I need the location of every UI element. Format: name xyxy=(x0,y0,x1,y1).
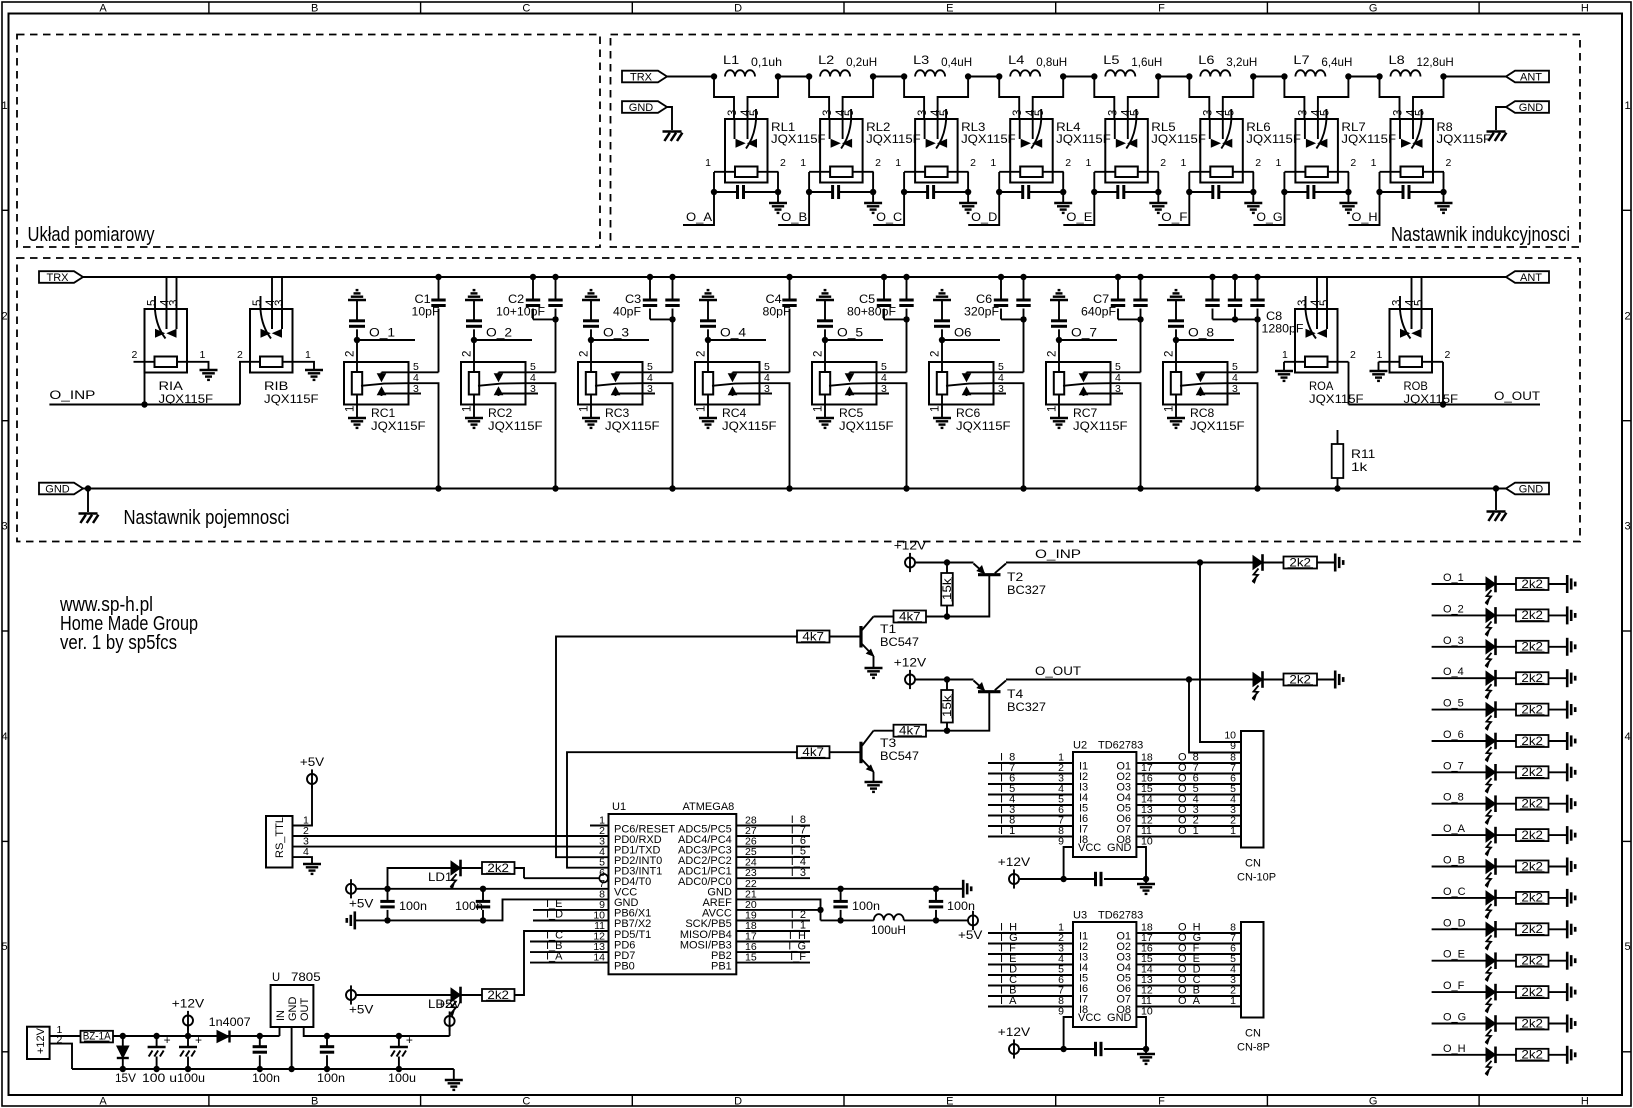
wire 2k2 to chassis (O_7) xyxy=(1549,771,1567,773)
svg-text:U1: U1 xyxy=(612,801,626,813)
svg-text:RC3: RC3 xyxy=(605,406,630,420)
net I_A to U3 I8 xyxy=(988,1006,1073,1008)
svg-text:1k: 1k xyxy=(1351,460,1368,474)
chassis ground (O_G) xyxy=(1566,1015,1569,1033)
wire R11 to GND rail xyxy=(1337,478,1339,489)
relay RL5 JQX115F xyxy=(1105,119,1148,183)
svg-text:F: F xyxy=(1158,1096,1165,1108)
svg-text:1: 1 xyxy=(579,406,591,412)
svg-text:3: 3 xyxy=(917,110,929,116)
capacitor C8 1280pF xyxy=(1209,274,1215,280)
inductor 100uH xyxy=(874,914,904,920)
IC U1 ATMEGA8 box xyxy=(609,814,737,974)
wire RL1 pin2 down xyxy=(777,172,779,192)
resistor 2k2 (O_G) xyxy=(1516,1018,1549,1030)
supply +5V (LD2) xyxy=(346,990,356,1000)
wire U2 GND pin10 to ground xyxy=(1136,847,1146,884)
resistor 2k2 (O_4) xyxy=(1516,672,1549,684)
frame column ticks top/bottom xyxy=(208,2,210,14)
capacitor 100n (PSU 2) xyxy=(326,1036,328,1047)
svg-text:1,6uH: 1,6uH xyxy=(1131,55,1162,69)
chassis ground (U1 GND left) xyxy=(353,911,356,929)
svg-text:OUT: OUT xyxy=(299,998,311,1022)
svg-text:2: 2 xyxy=(1160,157,1166,169)
svg-text:I_F: I_F xyxy=(790,951,806,963)
PSU bottom rail xyxy=(72,1068,454,1070)
svg-text:1: 1 xyxy=(1,100,7,112)
capacitor C4 80pF xyxy=(786,274,792,280)
wire T3 collector xyxy=(874,730,894,732)
wire ROB pin2 down to O_OUT xyxy=(1442,362,1444,405)
net I_5 from U1 xyxy=(736,856,810,858)
U1 pin1 stub xyxy=(590,825,609,827)
svg-text:+5V: +5V xyxy=(349,1003,373,1017)
svg-text:100n: 100n xyxy=(252,1071,280,1085)
svg-text:C: C xyxy=(522,1096,530,1108)
wire RL4 pin2 down xyxy=(1062,172,1064,192)
capacitor 100n (U2) xyxy=(1094,872,1097,886)
svg-text:1: 1 xyxy=(895,157,901,169)
svg-text:80+80pF: 80+80pF xyxy=(847,305,896,319)
svg-text:2: 2 xyxy=(696,351,708,357)
svg-text:3: 3 xyxy=(998,383,1004,395)
wire RL7 pin1 down xyxy=(1283,172,1285,192)
svg-text:D: D xyxy=(734,3,742,15)
svg-text:RC8: RC8 xyxy=(1190,406,1215,420)
svg-text:O_C: O_C xyxy=(1443,886,1466,898)
ground T3 emitter xyxy=(865,781,883,783)
ground above RC4 xyxy=(699,299,717,301)
wire O6 junction to relay pin2 xyxy=(941,340,943,372)
wire L1 left lead to relay contact xyxy=(714,77,734,120)
net label O_1 xyxy=(354,337,360,343)
net O_5 LED row xyxy=(1432,709,1486,711)
svg-text:CN: CN xyxy=(1245,1028,1261,1040)
LED (O_F) xyxy=(1486,985,1496,999)
capacitor to ground RC2 cell xyxy=(473,300,475,321)
svg-text:O_A: O_A xyxy=(1178,995,1201,1007)
wire 2k2 to chassis (O_E) xyxy=(1549,960,1567,962)
svg-text:1: 1 xyxy=(1085,157,1091,169)
ground above RC3 xyxy=(582,299,600,301)
svg-text:RC2: RC2 xyxy=(488,406,513,420)
svg-text:5: 5 xyxy=(749,110,761,116)
svg-text:5: 5 xyxy=(1129,110,1141,116)
connector CN-10P xyxy=(1241,731,1264,848)
resistor 2k2 (LD2) xyxy=(482,989,515,1001)
svg-text:R11: R11 xyxy=(1351,447,1376,461)
svg-text:Układ pomiarowy: Układ pomiarowy xyxy=(28,224,155,246)
LED LD2 xyxy=(451,988,461,1002)
net I_7 from U1 xyxy=(736,835,810,837)
wire T3 emitter to ground xyxy=(873,772,875,782)
svg-text:L6: L6 xyxy=(1198,53,1215,67)
svg-text:3: 3 xyxy=(530,383,536,395)
svg-text:O_2: O_2 xyxy=(1443,603,1464,615)
frame row ticks left/right xyxy=(2,209,9,211)
ground U3 xyxy=(1137,1053,1155,1055)
wire LED to 2k2 (O_7) xyxy=(1496,771,1517,773)
svg-text:T4: T4 xyxy=(1007,687,1024,701)
wire RL3 pin1 down xyxy=(903,172,905,192)
svg-text:0,4uH: 0,4uH xyxy=(941,55,972,69)
svg-text:O_OUT: O_OUT xyxy=(1494,389,1541,403)
RC3 pin 4 lever wire xyxy=(595,383,643,386)
svg-text:1: 1 xyxy=(800,157,806,169)
resistor 2k2 (O_7) xyxy=(1516,766,1549,778)
capacitor 100n (PSU 1) xyxy=(259,1036,261,1047)
net I_6 to U2 I3 xyxy=(988,783,1073,785)
svg-text:+12V: +12V xyxy=(35,1027,47,1054)
wire LED to 2k2 (O_INP) xyxy=(1263,562,1284,564)
LED LD2 circuit wire xyxy=(356,994,451,996)
svg-text:1: 1 xyxy=(1377,349,1383,361)
chassis ground (O_C) xyxy=(1566,889,1569,907)
chassis ground (O_H) xyxy=(1566,1046,1569,1064)
resistor 2k2 (O_8) xyxy=(1516,798,1549,810)
wire 2k2 to chassis (O_C) xyxy=(1549,897,1567,899)
wire L5 right lead to relay contact xyxy=(1128,77,1159,120)
capacitor 100u (1) xyxy=(156,1036,158,1047)
chassis ground (O_7) xyxy=(1566,763,1569,781)
svg-text:5: 5 xyxy=(1415,110,1427,116)
svg-text:LD1: LD1 xyxy=(428,870,453,884)
svg-text:A: A xyxy=(99,3,107,15)
svg-text:2: 2 xyxy=(1624,310,1630,322)
net label O_7 xyxy=(1056,337,1062,343)
net O_G from U3 O2 xyxy=(1136,943,1241,945)
svg-text:5: 5 xyxy=(939,110,951,116)
wire O_3 junction to relay pin2 xyxy=(590,340,592,372)
wire L6 left lead to relay contact xyxy=(1189,77,1209,120)
chassis ground (O_D) xyxy=(1566,920,1569,938)
svg-text:O_H: O_H xyxy=(1443,1043,1466,1055)
svg-text:1n4007: 1n4007 xyxy=(209,1015,251,1029)
net I_F to U3 I3 xyxy=(988,953,1073,955)
svg-text:O_2: O_2 xyxy=(486,326,512,340)
svg-text:BC547: BC547 xyxy=(880,635,919,649)
RC4 pin 3 stub xyxy=(733,393,773,395)
LED (O_H) xyxy=(1486,1048,1496,1062)
wire RC7 pin1 to ground xyxy=(1058,395,1060,419)
resistor 2k2 (O_H) xyxy=(1516,1049,1549,1061)
supply +12V (U3) xyxy=(1009,1044,1019,1054)
net O_E LED row xyxy=(1432,960,1486,962)
svg-text:U: U xyxy=(272,970,280,984)
wire TRX segment after L6 xyxy=(1253,76,1284,78)
svg-text:A: A xyxy=(99,1096,107,1108)
svg-text:2: 2 xyxy=(1047,351,1059,357)
wire GND rail (capacitor section) xyxy=(83,488,1506,490)
capacitor C5 80+80pF xyxy=(881,274,887,280)
wire 7805 GND xyxy=(291,1027,293,1069)
chassis ground (O_F) xyxy=(1566,983,1569,1001)
svg-text:H: H xyxy=(1581,1096,1589,1108)
relay RC3 JQX115F (rotated) xyxy=(578,362,643,405)
svg-text:40pF: 40pF xyxy=(613,305,641,319)
svg-text:ver. 1 by sp5fcs: ver. 1 by sp5fcs xyxy=(60,632,177,654)
svg-text:O_1: O_1 xyxy=(369,326,395,340)
ground RS_TTL xyxy=(303,863,321,865)
net I_A to U1 pin14 xyxy=(530,962,609,964)
svg-text:+5V: +5V xyxy=(437,997,461,1011)
svg-text:O_G: O_G xyxy=(1443,1012,1466,1024)
svg-text:2: 2 xyxy=(1065,157,1071,169)
svg-text:3: 3 xyxy=(764,383,770,395)
LED (O_8) xyxy=(1486,797,1496,811)
relay RL7 JQX115F xyxy=(1295,119,1338,183)
svg-text:TD62783: TD62783 xyxy=(1098,910,1143,922)
svg-text:CN: CN xyxy=(1245,858,1261,870)
net O_5 from U2 O4 xyxy=(1136,794,1241,796)
capacitor to ground RC1 cell xyxy=(356,300,358,321)
wire O_4 junction to relay pin2 xyxy=(707,340,709,372)
U1 pin6 PD4 wire with circle from LD1 xyxy=(524,877,599,879)
resistor 2k2 (O_E) xyxy=(1516,955,1549,967)
wire 2k2 to chassis (O_OUT) xyxy=(1317,679,1334,681)
svg-text:2: 2 xyxy=(1445,349,1451,361)
net I_H from U1 xyxy=(736,941,810,943)
svg-text:5: 5 xyxy=(1319,110,1331,116)
svg-text:Nastawnik pojemnosci: Nastawnik pojemnosci xyxy=(124,507,290,529)
chassis ground (O_6) xyxy=(1566,732,1569,750)
svg-text:+12V: +12V xyxy=(894,539,926,553)
relay R8 JQX115F xyxy=(1391,119,1434,183)
net O_OUT (capacitor section) xyxy=(1349,404,1541,406)
wire LED to 2k2 (O_8) xyxy=(1496,803,1517,805)
svg-text:L3: L3 xyxy=(913,53,930,67)
resistor 2k2 (LD1) xyxy=(482,862,515,874)
relay RL2 JQX115F xyxy=(820,119,863,183)
net I_G to U3 I2 xyxy=(988,943,1073,945)
svg-text:BC327: BC327 xyxy=(1007,583,1046,597)
net I_7 to U2 I2 xyxy=(988,773,1073,775)
RC8 pin 4 lever wire xyxy=(1180,383,1228,386)
capacitor C2 10+10pF xyxy=(530,274,536,280)
wire RL4 pin1 down xyxy=(998,172,1000,192)
LED (O_G) xyxy=(1486,1017,1496,1031)
svg-text:I_D: I_D xyxy=(546,909,563,921)
wire 2k2 to chassis (O_1) xyxy=(1549,583,1567,585)
chassis ground (O_OUT) xyxy=(1334,671,1337,689)
wire LED to 2k2 (O_E) xyxy=(1496,960,1517,962)
svg-text:3: 3 xyxy=(413,383,419,395)
svg-text:O_OUT: O_OUT xyxy=(1035,664,1082,678)
svg-text:3: 3 xyxy=(1232,383,1238,395)
dashed box Uklad pomiarowy xyxy=(17,35,600,248)
resistor 2k2 (O_1) xyxy=(1516,578,1549,590)
capacitor C3 40pF xyxy=(647,274,653,280)
svg-text:5: 5 xyxy=(844,110,856,116)
svg-text:TRX: TRX xyxy=(47,272,70,284)
wire +12V to U2 xyxy=(1019,878,1096,880)
net O_D from U3 O5 xyxy=(1136,974,1241,976)
svg-text:TRX: TRX xyxy=(630,72,653,84)
wire TRX segment after L3 xyxy=(968,76,999,78)
svg-text:JQX115F: JQX115F xyxy=(1151,132,1206,146)
LED (O_E) xyxy=(1486,954,1496,968)
wire ROA pin1 to ground xyxy=(1283,362,1285,371)
net stub O_H (inductor section) xyxy=(1349,192,1380,225)
relay RC8 JQX115F (rotated) xyxy=(1163,362,1228,405)
svg-text:5: 5 xyxy=(1624,941,1630,953)
ground under RL6 xyxy=(1252,192,1254,203)
resistor 2k2 (O_3) xyxy=(1516,641,1549,653)
net O_H from U3 O1 xyxy=(1136,932,1241,934)
net O_B LED row xyxy=(1432,866,1486,868)
inductor L1 0,1uh xyxy=(725,70,755,76)
wire RC5 pin1 to ground xyxy=(824,395,826,419)
chassis ground (O_A) xyxy=(1566,826,1569,844)
net O_4 LED row xyxy=(1432,677,1486,679)
LED (O_1) xyxy=(1486,577,1496,591)
svg-text:O_INP: O_INP xyxy=(49,388,95,402)
svg-text:2: 2 xyxy=(1,310,7,322)
svg-text:O_C: O_C xyxy=(876,210,902,224)
connector CN-8P xyxy=(1241,922,1264,1018)
net I_8 to U2 I1 xyxy=(988,762,1073,764)
net I_B to U1 pin13 xyxy=(530,951,609,953)
svg-text:JQX115F: JQX115F xyxy=(371,419,426,433)
relay ROB JQX115F xyxy=(1390,309,1433,373)
wire RL5 pin2 down xyxy=(1157,172,1159,192)
svg-text:PB1: PB1 xyxy=(711,960,732,972)
svg-text:O_A: O_A xyxy=(686,210,712,224)
svg-text:100uH: 100uH xyxy=(871,923,906,937)
svg-text:3: 3 xyxy=(1107,110,1119,116)
svg-text:+5V: +5V xyxy=(300,755,324,769)
wire L2 right lead to relay contact xyxy=(843,77,874,120)
wire RIB pin1 to ground xyxy=(304,362,315,370)
svg-text:100n: 100n xyxy=(317,1071,345,1085)
svg-text:PB0: PB0 xyxy=(614,960,635,972)
inductor L3 0,4uH xyxy=(915,70,945,76)
svg-text:RC1: RC1 xyxy=(371,406,396,420)
svg-text:+12V: +12V xyxy=(998,1025,1030,1039)
inductor L7 6,4uH xyxy=(1295,70,1325,76)
wire O_7 junction to relay pin2 xyxy=(1058,340,1060,372)
svg-text:F: F xyxy=(1158,3,1165,15)
wire LED to 2k2 (O_B) xyxy=(1496,866,1517,868)
junction dots at L6 xyxy=(1186,73,1192,79)
wire RC6 pin1 to ground xyxy=(941,395,943,419)
svg-text:2: 2 xyxy=(462,351,474,357)
capacitor across coil RL3 xyxy=(904,191,928,193)
resistor 2k2 (O_2) xyxy=(1516,609,1549,621)
chassis ground (O_INP) xyxy=(1334,554,1337,572)
svg-text:O_8: O_8 xyxy=(1188,326,1214,340)
svg-text:B: B xyxy=(311,1096,318,1108)
svg-text:1: 1 xyxy=(1624,100,1630,112)
svg-text:100n: 100n xyxy=(399,899,427,913)
svg-text:JQX115F: JQX115F xyxy=(722,419,777,433)
inductor L2 0,2uH xyxy=(820,70,850,76)
svg-text:O6: O6 xyxy=(954,326,972,340)
resistor 2k2 (O_F) xyxy=(1516,986,1549,998)
svg-text:5: 5 xyxy=(1319,300,1331,306)
svg-text:1: 1 xyxy=(1282,349,1288,361)
ground above RC1 xyxy=(348,299,366,301)
svg-text:O_B: O_B xyxy=(1443,855,1465,867)
svg-text:O_F: O_F xyxy=(1161,210,1187,224)
relay RL6 JQX115F xyxy=(1200,119,1243,183)
LED (O_A) xyxy=(1486,828,1496,842)
wire 2k2 to chassis (O_G) xyxy=(1549,1023,1567,1025)
svg-text:RIB: RIB xyxy=(264,379,288,393)
wire 2k2 to chassis (O_F) xyxy=(1549,991,1567,993)
wire 7805 OUT rail xyxy=(304,1027,450,1036)
wire R8 pin1 down xyxy=(1379,172,1381,192)
LED on O_OUT xyxy=(1253,673,1263,687)
relay RC5 JQX115F (rotated) xyxy=(812,362,877,405)
capacitor 100u (3) xyxy=(398,1036,400,1047)
wire LED to 2k2 (O_2) xyxy=(1496,614,1517,616)
wire ROA pin2 down to O_OUT xyxy=(1348,362,1350,405)
svg-text:+5V: +5V xyxy=(349,896,373,910)
resistor 2k2 (O_A) xyxy=(1516,829,1549,841)
net O_H LED row xyxy=(1432,1054,1486,1056)
wire L4 right lead to relay contact xyxy=(1033,77,1064,120)
svg-text:TD62783: TD62783 xyxy=(1098,740,1143,752)
supply +12V (U2) xyxy=(1009,874,1019,884)
svg-text:+: + xyxy=(406,1033,413,1047)
svg-text:3: 3 xyxy=(1393,110,1405,116)
wire L4 left lead to relay contact xyxy=(999,77,1019,120)
net label O_2 xyxy=(471,337,477,343)
svg-text:1: 1 xyxy=(345,406,357,412)
net O_6 from U2 O3 xyxy=(1136,783,1241,785)
junction dots at L3 xyxy=(901,73,907,79)
capacitor across coil R8 xyxy=(1380,191,1404,193)
svg-text:3: 3 xyxy=(881,383,887,395)
relay RC1 JQX115F (rotated) xyxy=(344,362,409,405)
wire RIA pin1 to ground xyxy=(198,362,209,370)
ground above RC6 xyxy=(933,299,951,301)
svg-text:O_4: O_4 xyxy=(720,326,746,340)
svg-text:640pF: 640pF xyxy=(1081,305,1116,319)
svg-text:JQX115F: JQX115F xyxy=(866,132,921,146)
net O_3 LED row xyxy=(1432,646,1486,648)
ground under RL3 xyxy=(967,192,969,203)
wire RL5 pin1 down xyxy=(1093,172,1095,192)
RC8 pin 5 wire xyxy=(1201,371,1258,373)
wire RC3 pin1 to ground xyxy=(590,395,592,419)
LED LD1 xyxy=(451,861,461,875)
wire TRX rail (capacitor section) xyxy=(83,276,1506,278)
wire O_5 junction to relay pin2 xyxy=(824,340,826,372)
wire TRX segment after L7 xyxy=(1348,76,1379,78)
LED on O_INP xyxy=(1253,556,1263,570)
svg-text:JQX115F: JQX115F xyxy=(771,132,826,146)
flag ANT (inductor section) xyxy=(1506,71,1549,83)
wire TRX segment after L4 xyxy=(1063,76,1094,78)
svg-text:1: 1 xyxy=(1276,157,1282,169)
wire GND flag to ground xyxy=(667,107,672,130)
svg-text:RS_TTL: RS_TTL xyxy=(274,817,286,858)
net I_H to U3 I1 xyxy=(988,932,1073,934)
capacitor to ground RC7 cell xyxy=(1058,300,1060,321)
flag TRX (inductor section) xyxy=(622,71,667,83)
LED (O_6) xyxy=(1486,734,1496,748)
wire 2k2 to chassis (O_B) xyxy=(1549,866,1567,868)
svg-text:100n: 100n xyxy=(852,899,880,913)
svg-text:7805: 7805 xyxy=(291,970,321,984)
capacitor 100n (VCC 2) xyxy=(482,889,484,902)
svg-text:100n: 100n xyxy=(947,899,975,913)
wire +12V to T4 emitter xyxy=(915,679,974,681)
net I_D to U1 pin10 xyxy=(533,920,609,922)
resistor 2k2 (O_B) xyxy=(1516,861,1549,873)
